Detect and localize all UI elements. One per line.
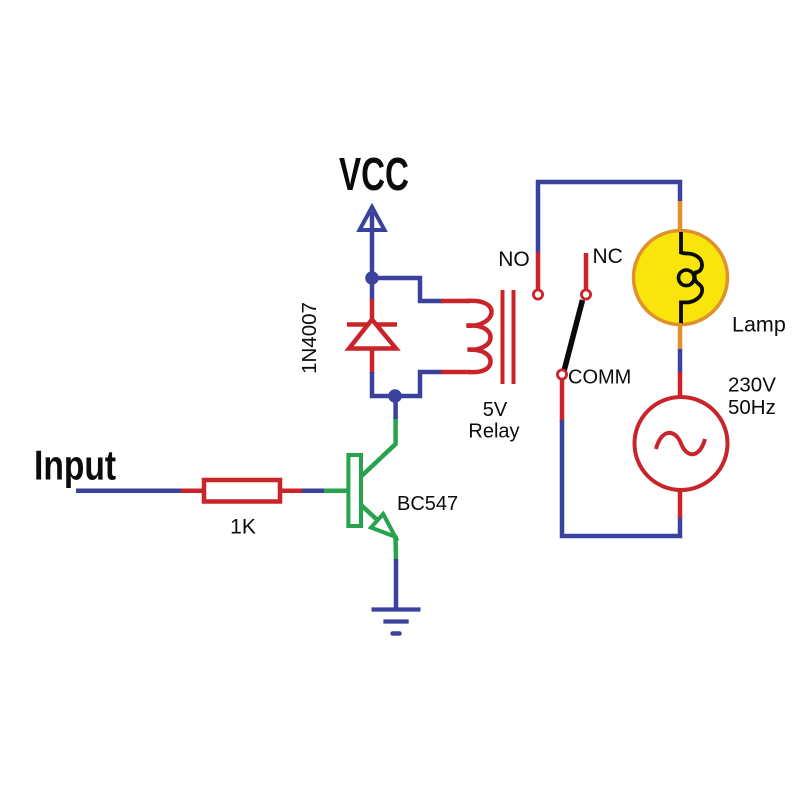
- relay K1 core bars: [503, 290, 514, 384]
- svg-text:NC: NC: [593, 245, 623, 268]
- value label 230V 50Hz: [728, 374, 776, 420]
- wire VCC node down to diode cathode: [370, 278, 375, 325]
- label Input: [34, 443, 116, 489]
- net VCC label: [339, 150, 409, 200]
- junction node B (collector node): [388, 389, 402, 403]
- svg-text:VCC: VCC: [339, 150, 409, 200]
- svg-text:1N4007: 1N4007: [298, 302, 321, 374]
- terminal NO contact: [533, 290, 542, 299]
- power VCC arrow symbol: [360, 207, 385, 272]
- lamp L1 bulb: [634, 231, 728, 325]
- transistor Q1 emitter arrow: [371, 514, 395, 537]
- svg-text:230V: 230V: [728, 374, 776, 397]
- junction node A (VCC rail): [365, 271, 379, 285]
- svg-text:Relay: Relay: [468, 421, 519, 443]
- svg-text:COMM: COMM: [568, 367, 631, 389]
- switch arm (relay contact, black): [564, 300, 583, 371]
- svg-text:Input: Input: [34, 443, 116, 489]
- svg-text:Lamp: Lamp: [732, 313, 786, 337]
- value label 1K: [230, 516, 256, 539]
- svg-text:NO: NO: [498, 248, 530, 271]
- transistor Q1 emitter lead: [361, 505, 396, 610]
- relay K1 coil: [466, 301, 492, 372]
- wire VCC node to relay coil top: [372, 278, 469, 301]
- label COMM: [568, 367, 631, 389]
- wire top rail (NO lead to lamp lead): [538, 182, 680, 253]
- value label BC547: [397, 493, 458, 515]
- wire diode anode to node B: [372, 349, 395, 397]
- terminal COMM contact: [557, 370, 566, 379]
- label Lamp: [732, 313, 786, 337]
- svg-text:5V: 5V: [483, 399, 508, 421]
- wire node B to relay coil bottom: [395, 372, 470, 396]
- resistor R1: [204, 480, 280, 502]
- transistor Q1 BC547 base bar: [348, 455, 361, 526]
- diode D1 1N4007 (flyback, cathode up): [347, 320, 397, 349]
- value label 5V Relay: [468, 399, 519, 443]
- wire lamp bottom lead to AC source: [678, 323, 683, 398]
- svg-text:1K: 1K: [230, 516, 256, 539]
- svg-text:BC547: BC547: [397, 493, 458, 515]
- value label 1N4007: [298, 302, 321, 374]
- lamp L1 filament: [679, 232, 703, 324]
- label NC: [593, 245, 623, 268]
- transistor Q1 collector lead: [361, 396, 396, 477]
- wire NO contact lead: [536, 252, 541, 290]
- ground symbol: [372, 610, 421, 634]
- wire lamp top lead (orange): [678, 201, 683, 232]
- wire COMM down and bottom rail to AC source: [562, 379, 680, 536]
- AC source V1 230V 50Hz: [635, 397, 728, 490]
- svg-text:50Hz: 50Hz: [728, 396, 776, 419]
- wire resistor to transistor base: [280, 488, 349, 493]
- terminal NC contact: [581, 290, 590, 299]
- wire input to resistor: [76, 488, 205, 493]
- wire NC contact lead: [584, 253, 589, 290]
- label NO: [498, 248, 530, 271]
